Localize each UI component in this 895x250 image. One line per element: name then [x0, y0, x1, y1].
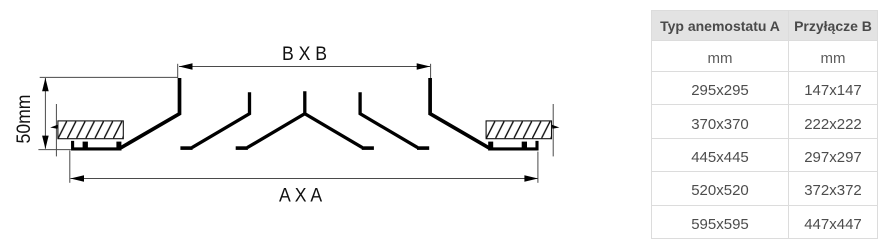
svg-text:B X B: B X B — [282, 42, 327, 64]
svg-text:50mm: 50mm — [12, 95, 34, 144]
svg-text:A X A: A X A — [279, 184, 323, 206]
